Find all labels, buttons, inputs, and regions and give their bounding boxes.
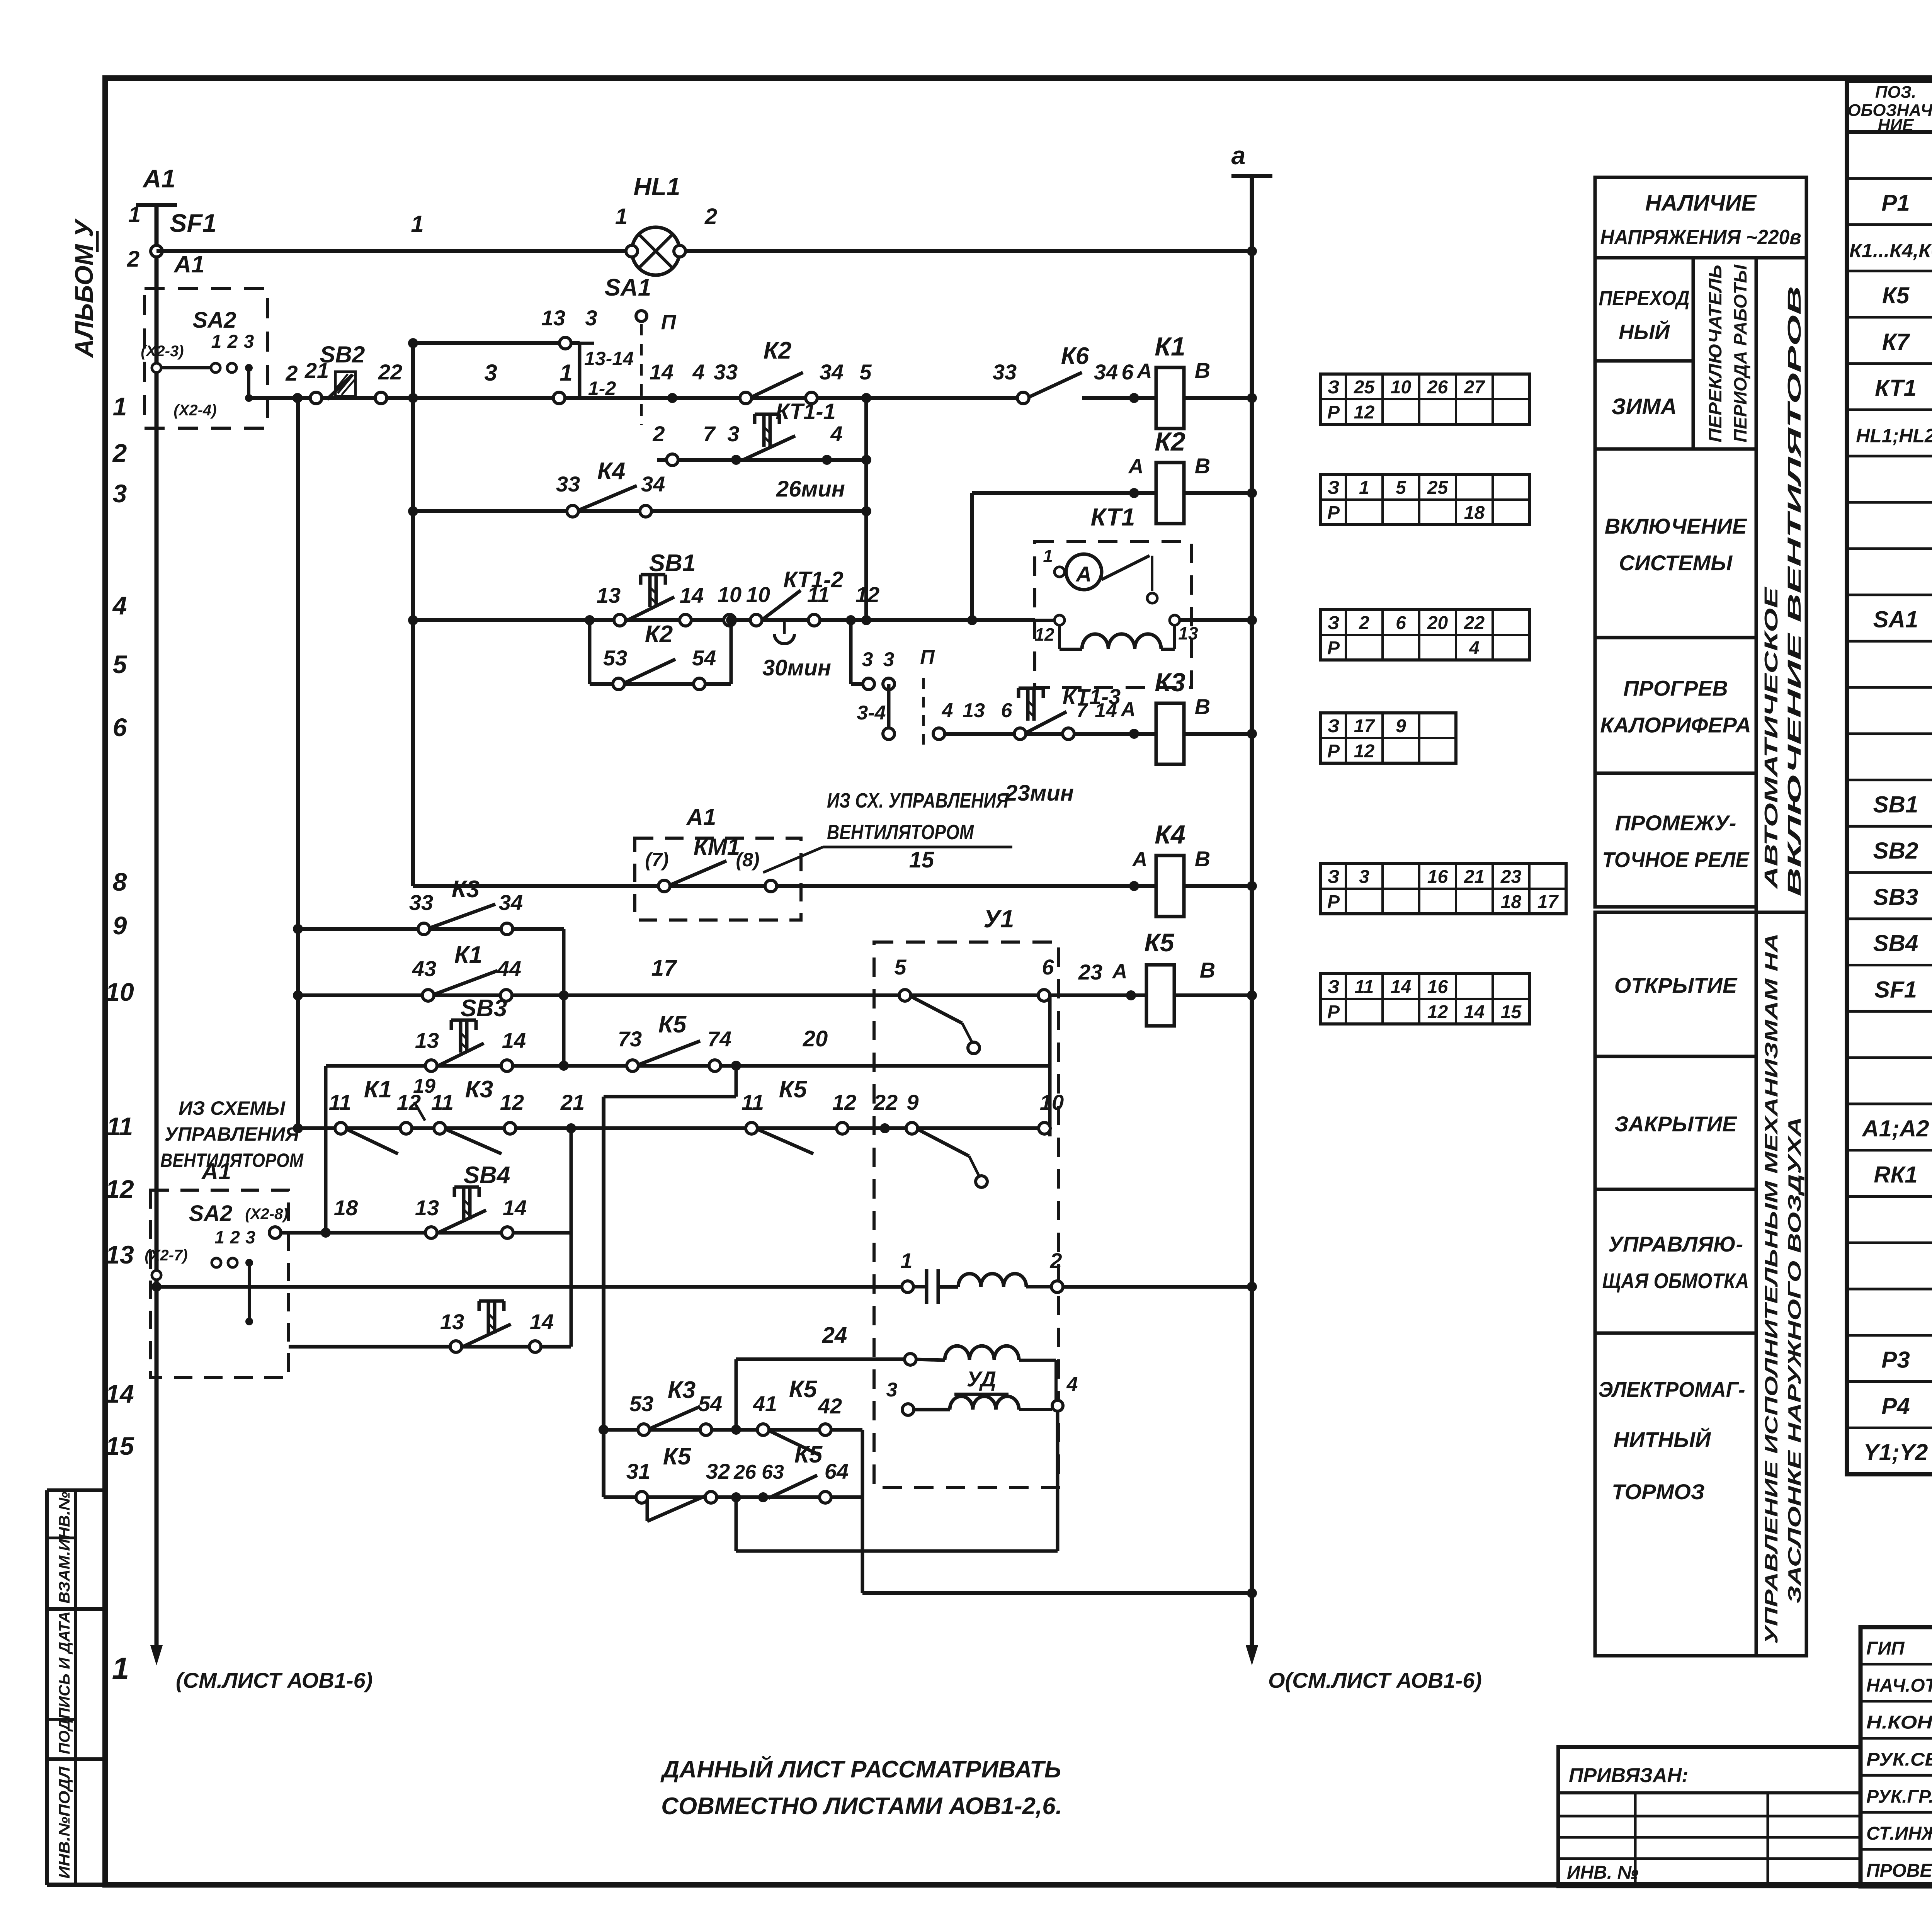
svg-text:22: 22 — [873, 1090, 898, 1114]
svg-text:14: 14 — [1464, 1002, 1485, 1022]
svg-text:13: 13 — [1178, 623, 1198, 643]
svg-text:К2: К2 — [1155, 427, 1185, 456]
svg-text:ПЕРИОДА РАБОТЫ: ПЕРИОДА РАБОТЫ — [1730, 264, 1750, 442]
svg-text:НL1: НL1 — [634, 173, 680, 201]
svg-text:(Х2-7): (Х2-7) — [145, 1247, 187, 1264]
svg-text:7: 7 — [703, 422, 716, 446]
svg-text:42: 42 — [818, 1394, 842, 1418]
svg-text:З: З — [1328, 478, 1340, 498]
svg-text:SВ4: SВ4 — [1873, 930, 1918, 956]
svg-text:1: 1 — [113, 392, 127, 421]
svg-text:17: 17 — [1354, 716, 1376, 736]
svg-text:К4: К4 — [1155, 820, 1185, 849]
svg-text:6: 6 — [1396, 613, 1406, 633]
svg-text:12: 12 — [1034, 624, 1054, 645]
svg-text:(Х2-4): (Х2-4) — [173, 402, 216, 419]
svg-text:18: 18 — [334, 1196, 358, 1220]
svg-text:К2: К2 — [645, 621, 673, 648]
svg-text:10: 10 — [1040, 1090, 1064, 1114]
svg-text:Р: Р — [1327, 638, 1340, 658]
svg-text:3: 3 — [113, 479, 127, 508]
svg-text:11: 11 — [107, 1112, 133, 1141]
svg-text:УПРАВЛЕНИЕ ИСПОЛНИТЕЛЬНЫМ МЕ: УПРАВЛЕНИЕ ИСПОЛНИТЕЛЬНЫМ МЕХАНИЗМАМ НА — [1761, 933, 1781, 1644]
svg-text:6: 6 — [1001, 699, 1013, 722]
svg-text:К1: К1 — [364, 1076, 392, 1103]
svg-text:НАПРЯЖЕНИЯ ~220в: НАПРЯЖЕНИЯ ~220в — [1600, 226, 1801, 249]
svg-text:12: 12 — [105, 1175, 134, 1203]
svg-text:а: а — [1231, 141, 1246, 170]
svg-text:ВЕНТИЛЯТОРОМ: ВЕНТИЛЯТОРОМ — [160, 1150, 304, 1171]
svg-text:К5: К5 — [658, 1011, 687, 1038]
svg-text:Р1: Р1 — [1881, 190, 1910, 216]
svg-text:26мин: 26мин — [776, 476, 845, 502]
svg-text:ПОЗ.: ПОЗ. — [1875, 83, 1916, 102]
svg-text:ЗИМА: ЗИМА — [1611, 394, 1677, 419]
svg-text:К4: К4 — [597, 458, 626, 485]
svg-text:В: В — [1195, 358, 1210, 383]
svg-text:(Х2-8): (Х2-8) — [245, 1206, 288, 1223]
svg-text:2: 2 — [652, 422, 665, 446]
svg-text:(7): (7) — [645, 849, 668, 871]
svg-text:(8): (8) — [736, 849, 759, 871]
svg-text:2: 2 — [112, 439, 127, 467]
svg-text:ПЕРЕКЛЮЧАТЕЛЬ: ПЕРЕКЛЮЧАТЕЛЬ — [1705, 265, 1725, 442]
svg-text:РУК.СЕКТ: РУК.СЕКТ — [1866, 1750, 1932, 1770]
svg-text:33: 33 — [993, 360, 1017, 384]
svg-text:1: 1 — [214, 1227, 224, 1247]
svg-text:ПРОВЕР.: ПРОВЕР. — [1866, 1861, 1932, 1881]
svg-text:74: 74 — [707, 1027, 731, 1051]
svg-text:Р: Р — [1327, 402, 1340, 423]
svg-text:КТ1: КТ1 — [1875, 375, 1917, 401]
svg-text:33: 33 — [409, 890, 433, 915]
svg-text:ГИП: ГИП — [1866, 1638, 1905, 1659]
svg-text:Н.КОНТР.: Н.КОНТР. — [1866, 1713, 1932, 1733]
svg-text:АЛЬБОМ У: АЛЬБОМ У — [70, 218, 98, 358]
svg-text:63: 63 — [762, 1461, 784, 1483]
svg-text:1: 1 — [1359, 478, 1369, 498]
svg-text:ЗАКРЫТИЕ: ЗАКРЫТИЕ — [1614, 1112, 1737, 1136]
svg-text:РУК.ГР.: РУК.ГР. — [1866, 1786, 1932, 1807]
svg-text:КТ1: КТ1 — [1091, 503, 1135, 531]
svg-text:12: 12 — [1354, 741, 1375, 762]
svg-text:21: 21 — [560, 1090, 585, 1114]
svg-text:А1: А1 — [142, 164, 175, 193]
svg-text:А: А — [1136, 359, 1152, 383]
svg-text:ВЗАМ.ИНВ.№: ВЗАМ.ИНВ.№ — [56, 1492, 73, 1604]
svg-text:20: 20 — [1427, 613, 1448, 633]
svg-text:17: 17 — [651, 956, 677, 981]
svg-text:6: 6 — [1121, 360, 1134, 384]
svg-text:З: З — [1328, 613, 1340, 633]
svg-text:44: 44 — [497, 956, 521, 981]
svg-text:А1: А1 — [173, 251, 204, 278]
svg-text:12: 12 — [855, 582, 879, 607]
svg-text:ИНВ. №: ИНВ. № — [1567, 1862, 1639, 1883]
svg-text:23мин: 23мин — [1005, 781, 1074, 806]
svg-text:13: 13 — [415, 1028, 439, 1053]
svg-text:К5: К5 — [789, 1376, 818, 1403]
svg-text:ИНВ.№ПОДЛ: ИНВ.№ПОДЛ — [56, 1766, 73, 1879]
svg-text:RК1: RК1 — [1874, 1162, 1918, 1188]
svg-text:3: 3 — [1359, 867, 1369, 887]
svg-text:2: 2 — [704, 204, 717, 229]
svg-text:А: А — [1128, 455, 1144, 478]
svg-text:33: 33 — [556, 472, 580, 496]
svg-text:В: В — [1195, 454, 1210, 478]
svg-text:53: 53 — [629, 1391, 653, 1416]
svg-text:5: 5 — [894, 955, 906, 979]
svg-text:КАЛОРИФЕРА: КАЛОРИФЕРА — [1600, 713, 1751, 737]
svg-text:73: 73 — [618, 1027, 642, 1051]
svg-text:13: 13 — [963, 699, 985, 722]
svg-text:15: 15 — [1501, 1002, 1522, 1022]
svg-text:К6: К6 — [1061, 343, 1089, 369]
svg-text:11: 11 — [1355, 977, 1374, 997]
svg-text:3: 3 — [862, 648, 873, 671]
svg-text:23: 23 — [1078, 960, 1102, 984]
svg-text:Р3: Р3 — [1881, 1347, 1910, 1373]
svg-text:SВ3: SВ3 — [1873, 884, 1918, 910]
svg-text:13: 13 — [105, 1240, 134, 1269]
svg-text:1: 1 — [1043, 546, 1053, 566]
svg-text:5: 5 — [1396, 478, 1406, 498]
svg-text:14: 14 — [680, 583, 704, 607]
svg-text:4: 4 — [1469, 638, 1480, 658]
svg-text:14: 14 — [1391, 977, 1411, 997]
svg-text:ДАННЫЙ ЛИСТ РАССМАТРИВАТЬ: ДАННЫЙ ЛИСТ РАССМАТРИВАТЬ — [660, 1755, 1061, 1783]
svg-text:ТОРМОЗ: ТОРМОЗ — [1612, 1480, 1705, 1504]
svg-text:SВ3: SВ3 — [461, 995, 507, 1022]
svg-text:2: 2 — [230, 1227, 240, 1247]
svg-text:27: 27 — [1464, 377, 1486, 398]
svg-text:ЩАЯ ОБМОТКА: ЩАЯ ОБМОТКА — [1602, 1269, 1749, 1293]
svg-text:10: 10 — [718, 582, 742, 607]
svg-text:К5: К5 — [1882, 282, 1910, 308]
svg-text:5: 5 — [113, 650, 128, 679]
svg-text:К3: К3 — [465, 1076, 493, 1103]
svg-text:15: 15 — [105, 1432, 134, 1460]
svg-text:К1...К4,К6: К1...К4,К6 — [1849, 240, 1932, 261]
svg-text:12: 12 — [1427, 1002, 1448, 1022]
svg-text:(Х2-3): (Х2-3) — [141, 343, 184, 360]
svg-text:А1;А2: А1;А2 — [1861, 1116, 1929, 1141]
svg-text:10: 10 — [105, 978, 134, 1006]
svg-text:23: 23 — [1500, 867, 1522, 887]
svg-text:12: 12 — [500, 1090, 524, 1114]
svg-text:А: А — [1075, 562, 1092, 586]
svg-text:11: 11 — [742, 1090, 764, 1114]
svg-text:НАЛИЧИЕ: НАЛИЧИЕ — [1645, 190, 1757, 216]
svg-text:УД: УД — [967, 1367, 996, 1391]
svg-text:6: 6 — [113, 713, 128, 742]
svg-text:3: 3 — [883, 648, 895, 671]
svg-text:32: 32 — [706, 1459, 730, 1483]
svg-text:26: 26 — [1427, 377, 1448, 398]
svg-text:3: 3 — [245, 1227, 255, 1247]
svg-text:54: 54 — [692, 646, 716, 670]
svg-text:14: 14 — [650, 360, 673, 384]
svg-text:ЗАСЛОНКЕ НАРУЖНОГО ВОЗДУХА: ЗАСЛОНКЕ НАРУЖНОГО ВОЗДУХА — [1784, 1117, 1804, 1604]
svg-text:16: 16 — [1427, 867, 1448, 887]
svg-text:А: А — [1112, 960, 1128, 983]
svg-text:3: 3 — [585, 306, 597, 330]
svg-text:1: 1 — [411, 211, 423, 237]
svg-text:А: А — [1132, 848, 1148, 871]
svg-text:34: 34 — [641, 472, 665, 496]
svg-text:SА1: SА1 — [1873, 606, 1918, 632]
svg-text:К3: К3 — [452, 876, 480, 903]
svg-text:1: 1 — [900, 1248, 912, 1273]
svg-text:13: 13 — [597, 583, 621, 607]
svg-text:20: 20 — [803, 1026, 828, 1051]
svg-text:1-2: 1-2 — [588, 378, 616, 399]
svg-text:П: П — [920, 646, 935, 668]
svg-text:54: 54 — [698, 1391, 722, 1416]
svg-text:10: 10 — [746, 582, 770, 607]
svg-text:2: 2 — [227, 332, 238, 352]
svg-text:15: 15 — [909, 847, 934, 872]
svg-text:11: 11 — [807, 582, 830, 607]
svg-text:Y1;Y2: Y1;Y2 — [1864, 1439, 1928, 1465]
svg-text:34: 34 — [499, 890, 523, 915]
svg-text:12: 12 — [1354, 402, 1375, 423]
svg-text:SF1: SF1 — [170, 209, 216, 237]
svg-text:К5: К5 — [779, 1076, 808, 1103]
svg-text:К5: К5 — [794, 1441, 823, 1468]
svg-text:К3: К3 — [1155, 668, 1185, 697]
svg-text:3: 3 — [244, 332, 254, 352]
svg-text:3: 3 — [727, 422, 739, 446]
svg-text:Р4: Р4 — [1881, 1393, 1910, 1419]
svg-text:25: 25 — [1354, 377, 1375, 398]
svg-text:2: 2 — [285, 361, 298, 385]
svg-text:14: 14 — [502, 1028, 526, 1053]
svg-text:9: 9 — [906, 1090, 918, 1114]
svg-text:SВ2: SВ2 — [320, 342, 365, 367]
svg-text:34: 34 — [820, 360, 844, 384]
svg-text:УПРАВЛЯЮ-: УПРАВЛЯЮ- — [1608, 1232, 1743, 1256]
svg-text:13: 13 — [541, 306, 565, 330]
svg-text:SВ1: SВ1 — [649, 550, 696, 577]
svg-text:1: 1 — [560, 360, 572, 386]
svg-text:3: 3 — [484, 360, 497, 386]
svg-text:SВ1: SВ1 — [1873, 791, 1918, 817]
svg-text:31: 31 — [626, 1459, 650, 1483]
svg-text:КМ1: КМ1 — [694, 834, 740, 860]
svg-text:К5: К5 — [1144, 928, 1175, 957]
svg-text:А: А — [1120, 698, 1136, 721]
svg-text:17: 17 — [1537, 892, 1559, 912]
svg-text:А1: А1 — [686, 804, 716, 830]
svg-text:В: В — [1200, 958, 1215, 982]
svg-text:2: 2 — [127, 247, 139, 272]
svg-text:14: 14 — [1095, 699, 1117, 722]
svg-text:22: 22 — [1464, 613, 1485, 633]
svg-text:4: 4 — [112, 591, 127, 620]
svg-text:НИТНЫЙ: НИТНЫЙ — [1614, 1427, 1711, 1452]
svg-text:Р: Р — [1327, 892, 1340, 912]
svg-text:26: 26 — [733, 1461, 757, 1483]
svg-text:8: 8 — [113, 867, 127, 896]
svg-text:4: 4 — [1066, 1373, 1078, 1396]
svg-text:СИСТЕМЫ: СИСТЕМЫ — [1619, 551, 1733, 575]
svg-text:ИЗ СХЕМЫ: ИЗ СХЕМЫ — [179, 1097, 286, 1119]
svg-text:SА2: SА2 — [193, 308, 236, 333]
svg-text:14: 14 — [503, 1196, 527, 1220]
svg-text:К5: К5 — [663, 1443, 692, 1470]
svg-text:43: 43 — [412, 956, 436, 981]
svg-text:У1: У1 — [984, 905, 1014, 933]
svg-text:ПОДПИСЬ И ДАТА: ПОДПИСЬ И ДАТА — [56, 1611, 73, 1754]
svg-text:НАЧ.ОТД: НАЧ.ОТД — [1866, 1675, 1932, 1696]
svg-text:14: 14 — [530, 1310, 554, 1334]
svg-text:З: З — [1328, 716, 1340, 736]
svg-text:УПРАВЛЕНИЯ: УПРАВЛЕНИЯ — [165, 1123, 300, 1145]
svg-text:22: 22 — [378, 360, 402, 384]
svg-text:ВКЛЮЧЕНИЕ ВЕНТИЛЯТОРОВ: ВКЛЮЧЕНИЕ ВЕНТИЛЯТОРОВ — [1784, 286, 1805, 896]
svg-text:9: 9 — [113, 911, 127, 940]
svg-text:SF1: SF1 — [1874, 976, 1917, 1002]
svg-text:ПЕРЕХОД: ПЕРЕХОД — [1599, 287, 1690, 310]
svg-text:2: 2 — [1049, 1248, 1062, 1273]
svg-text:16: 16 — [1427, 977, 1448, 997]
svg-text:В: В — [1195, 694, 1210, 719]
svg-text:П: П — [661, 311, 677, 334]
svg-text:ВЕНТИЛЯТОРОМ: ВЕНТИЛЯТОРОМ — [827, 821, 974, 844]
svg-text:24: 24 — [822, 1323, 847, 1348]
svg-text:6: 6 — [1042, 955, 1054, 979]
svg-text:SВ4: SВ4 — [464, 1162, 510, 1189]
svg-text:13: 13 — [415, 1196, 439, 1220]
svg-text:3: 3 — [886, 1379, 898, 1401]
svg-text:ИЗ СХ. УПРАВЛЕНИЯ: ИЗ СХ. УПРАВЛЕНИЯ — [827, 789, 1009, 812]
svg-text:7: 7 — [1077, 699, 1088, 722]
svg-text:SА2: SА2 — [189, 1201, 233, 1226]
svg-text:(СМ.ЛИСТ АОВ1-6): (СМ.ЛИСТ АОВ1-6) — [176, 1668, 372, 1692]
svg-text:Р: Р — [1327, 741, 1340, 762]
svg-text:Р: Р — [1327, 1002, 1340, 1022]
svg-text:9: 9 — [1396, 716, 1406, 736]
svg-text:13-14: 13-14 — [584, 348, 634, 369]
svg-text:ЭЛЕКТРОМАГ-: ЭЛЕКТРОМАГ- — [1599, 1377, 1745, 1401]
svg-text:1: 1 — [128, 202, 141, 227]
svg-text:11: 11 — [329, 1090, 351, 1114]
svg-text:2: 2 — [1359, 613, 1369, 633]
svg-text:К3: К3 — [668, 1377, 696, 1403]
svg-text:НL1;НL2: НL1;НL2 — [1856, 425, 1932, 446]
svg-text:21: 21 — [1464, 867, 1485, 887]
svg-text:18: 18 — [1501, 892, 1522, 912]
svg-text:53: 53 — [603, 646, 627, 670]
svg-text:25: 25 — [1427, 478, 1449, 498]
svg-text:К1: К1 — [1155, 332, 1185, 361]
svg-text:14: 14 — [105, 1379, 134, 1408]
svg-text:З: З — [1328, 977, 1340, 997]
svg-text:4: 4 — [942, 699, 953, 722]
svg-text:13: 13 — [440, 1310, 464, 1334]
svg-text:3-4: 3-4 — [857, 702, 886, 724]
svg-text:4: 4 — [692, 360, 704, 384]
svg-text:В: В — [1195, 847, 1210, 871]
svg-text:18: 18 — [1464, 503, 1485, 523]
svg-text:СТ.ИНЖ: СТ.ИНЖ — [1866, 1823, 1932, 1844]
svg-text:СОВМЕСТНО ЛИСТАМИ АОВ1-2,6.: СОВМЕСТНО ЛИСТАМИ АОВ1-2,6. — [661, 1793, 1062, 1820]
svg-text:НИЕ: НИЕ — [1878, 116, 1914, 134]
svg-text:10: 10 — [1391, 377, 1412, 398]
svg-text:5: 5 — [859, 360, 872, 384]
svg-text:19: 19 — [413, 1075, 435, 1097]
svg-text:12: 12 — [832, 1090, 856, 1114]
svg-text:64: 64 — [825, 1459, 849, 1483]
svg-text:З: З — [1328, 867, 1340, 887]
svg-text:SА1: SА1 — [605, 274, 651, 301]
svg-text:4: 4 — [830, 422, 842, 446]
svg-text:1: 1 — [211, 332, 222, 352]
svg-text:К7: К7 — [1882, 329, 1910, 355]
svg-text:АВТОМАТИЧЕСКОЕ: АВТОМАТИЧЕСКОЕ — [1761, 586, 1782, 889]
svg-text:41: 41 — [753, 1391, 777, 1416]
svg-text:ОТКРЫТИЕ: ОТКРЫТИЕ — [1614, 973, 1738, 998]
svg-text:Р: Р — [1327, 503, 1340, 523]
svg-text:1: 1 — [112, 1651, 129, 1685]
svg-text:33: 33 — [714, 360, 738, 384]
svg-text:КТ1-1: КТ1-1 — [776, 399, 836, 424]
svg-text:34: 34 — [1094, 360, 1118, 384]
svg-text:1: 1 — [615, 204, 628, 229]
svg-text:О(СМ.ЛИСТ АОВ1-6): О(СМ.ЛИСТ АОВ1-6) — [1268, 1668, 1482, 1692]
svg-text:З: З — [1328, 377, 1340, 398]
svg-text:30мин: 30мин — [762, 655, 831, 680]
svg-text:К1: К1 — [454, 942, 483, 968]
svg-text:ПРОМЕЖУ-: ПРОМЕЖУ- — [1615, 811, 1736, 835]
svg-text:К2: К2 — [764, 337, 792, 364]
svg-text:НЫЙ: НЫЙ — [1619, 320, 1670, 344]
svg-text:ТОЧНОЕ РЕЛЕ: ТОЧНОЕ РЕЛЕ — [1602, 847, 1750, 872]
svg-text:ПРОГРЕВ: ПРОГРЕВ — [1623, 676, 1728, 701]
svg-text:ВКЛЮЧЕНИЕ: ВКЛЮЧЕНИЕ — [1605, 514, 1747, 538]
svg-text:ПРИВЯЗАН:: ПРИВЯЗАН: — [1569, 1764, 1689, 1787]
svg-text:SВ2: SВ2 — [1873, 838, 1918, 864]
